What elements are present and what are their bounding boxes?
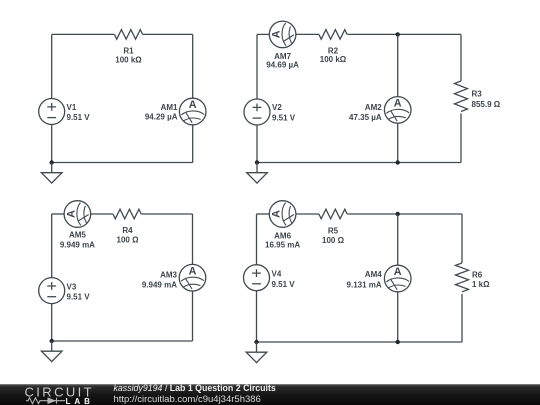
wire: C1 right upper: [192, 34, 194, 98]
resistor R4: [113, 209, 141, 244]
wire: C4 left upper: [256, 214, 258, 265]
resistor R1: [114, 30, 142, 65]
svg-text:R5: R5: [328, 226, 339, 235]
svg-text:AM1: AM1: [161, 103, 178, 112]
wire: C1 right lower: [192, 125, 194, 163]
svg-text:47.35 µA: 47.35 µA: [349, 113, 382, 122]
ammeter AM3: [142, 264, 206, 291]
wire: C4 bottom: [257, 341, 463, 343]
svg-text:A: A: [65, 210, 77, 218]
wire: C2 branch lower: [397, 123, 399, 163]
svg-text:9.949 mA: 9.949 mA: [60, 241, 95, 250]
wire: C1 bottom: [52, 162, 193, 164]
node: C4 ground junction: [254, 340, 258, 344]
wire: C2 top-left to AM7: [257, 33, 270, 35]
svg-text:A: A: [189, 99, 197, 111]
ammeter AM7: [266, 21, 299, 69]
svg-text:R2: R2: [328, 46, 339, 55]
ground (C1): [41, 163, 62, 184]
wire: C3 left upper: [51, 214, 53, 278]
ground (C3): [41, 341, 62, 362]
svg-text:100 kΩ: 100 kΩ: [320, 55, 347, 64]
wire: C3 R4 to top-right corner: [141, 213, 192, 215]
logo: resistor-diode glyph: [26, 398, 65, 404]
wire: C3 right upper: [192, 214, 194, 265]
ammeter AM6: [265, 201, 300, 250]
svg-text:9.51 V: 9.51 V: [272, 114, 296, 123]
svg-text:100 Ω: 100 Ω: [322, 236, 345, 245]
wire: C2 top from R2 to right corner: [347, 33, 461, 35]
wire: C3 left lower: [51, 304, 53, 341]
svg-text:100 kΩ: 100 kΩ: [115, 55, 142, 64]
wire: C1 top-left to R1: [52, 33, 115, 35]
svg-text:http://circuitlab.com/c9u4j34r: http://circuitlab.com/c9u4j34r5h386: [114, 394, 261, 405]
voltage source V3: [39, 278, 91, 304]
ammeter AM2: [349, 97, 411, 124]
svg-text:R4: R4: [122, 226, 133, 235]
svg-text:1 kΩ: 1 kΩ: [472, 280, 490, 289]
wire: C2 right lower: [460, 114, 462, 163]
wire: C3 top-left to AM5: [52, 213, 65, 215]
svg-text:AM4: AM4: [365, 270, 382, 279]
wire: C2 right upper: [460, 34, 462, 81]
svg-text:9.51 V: 9.51 V: [67, 293, 91, 302]
node: C4 bottom junction: [396, 340, 400, 344]
node: C2 ground junction: [255, 160, 259, 164]
wire: AM7 to R2: [296, 33, 319, 35]
svg-text:kassidy9194 / Lab 1 Question 2: kassidy9194 / Lab 1 Question 2 Circuits: [114, 383, 276, 393]
svg-text:A: A: [394, 266, 402, 278]
node: C2 bottom junction: [396, 160, 400, 164]
voltage source V1: [39, 99, 91, 125]
voltage source V2: [244, 99, 296, 125]
svg-text:9.51 V: 9.51 V: [272, 280, 296, 289]
svg-text:A: A: [271, 30, 283, 38]
wire: C2 branch upper: [397, 34, 399, 96]
node: C4 top junction: [396, 212, 400, 216]
svg-text:A: A: [189, 265, 197, 277]
svg-text:R6: R6: [472, 271, 483, 280]
wire: C4 branch lower: [397, 292, 399, 342]
resistor R6: [456, 263, 491, 292]
svg-text:A: A: [394, 98, 402, 110]
wire: C4 top-left to AM6: [257, 213, 270, 215]
svg-text:V1: V1: [67, 103, 77, 112]
wire: C2 left upper: [256, 34, 258, 99]
svg-text:94.29 µA: 94.29 µA: [145, 113, 178, 122]
svg-text:R3: R3: [472, 90, 483, 99]
wire: C1 left lower: [51, 125, 53, 163]
wire: C4 left lower: [256, 291, 258, 342]
wire: C4 top from R5 to right corner: [347, 213, 462, 215]
wire: C4 right lower: [461, 294, 463, 342]
wire: C4 branch upper: [397, 214, 399, 265]
svg-text:100 Ω: 100 Ω: [117, 235, 140, 244]
ground (C4): [246, 342, 267, 363]
svg-text:AM6: AM6: [274, 231, 291, 240]
footer bar: [0, 384, 540, 405]
svg-text:855.9 Ω: 855.9 Ω: [472, 100, 501, 109]
node: C1 ground junction: [50, 160, 54, 164]
wire: C2 bottom: [257, 162, 461, 164]
svg-text:V2: V2: [272, 103, 282, 112]
wire: C1 R1 to top-right corner: [143, 33, 193, 35]
ammeter AM5: [60, 201, 95, 250]
svg-text:16.95 mA: 16.95 mA: [265, 241, 300, 250]
voltage source V4: [244, 265, 296, 291]
svg-text:AM2: AM2: [365, 103, 382, 112]
wire: AM6 to R5: [296, 213, 319, 215]
svg-text:94.69 µA: 94.69 µA: [266, 61, 299, 70]
resistor R2: [319, 30, 347, 65]
node: C2 top junction: [396, 32, 400, 36]
wire: C4 right upper: [461, 214, 463, 263]
svg-text:V4: V4: [272, 269, 282, 278]
wire: C3 bottom: [52, 340, 193, 342]
ammeter AM4: [347, 265, 411, 292]
svg-text:9.51 V: 9.51 V: [67, 113, 91, 122]
node: C3 ground junction: [50, 339, 54, 343]
ammeter AM1: [145, 98, 206, 125]
svg-text:A: A: [271, 210, 283, 218]
svg-text:V3: V3: [67, 282, 77, 291]
svg-text:AM7: AM7: [274, 52, 291, 61]
ground (C2): [247, 163, 268, 184]
svg-text:9.949 mA: 9.949 mA: [142, 280, 177, 289]
svg-text:LAB: LAB: [66, 397, 94, 405]
wire: C3 right lower: [192, 291, 194, 341]
svg-text:9.131 mA: 9.131 mA: [347, 280, 382, 289]
resistor R3: [455, 81, 501, 111]
wire: C1 left upper: [51, 34, 53, 98]
svg-text:R1: R1: [123, 46, 134, 55]
svg-text:AM3: AM3: [160, 271, 177, 280]
wire: C2 left lower: [256, 125, 258, 163]
resistor R5: [319, 209, 347, 245]
svg-text:AM5: AM5: [69, 231, 86, 240]
wire: AM5 to R4: [91, 213, 114, 215]
